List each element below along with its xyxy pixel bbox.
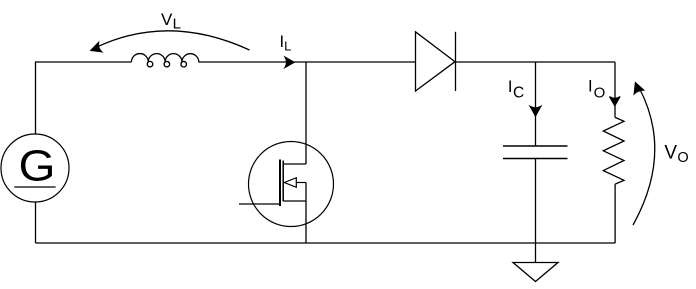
wire: ground lead xyxy=(535,243,537,263)
wire: bottom rail xyxy=(36,242,616,244)
arrow VL (curved, pointing left) xyxy=(98,31,250,50)
svg-text:C: C xyxy=(513,84,524,101)
arrow VO (curved, pointing up) xyxy=(633,89,655,226)
svg-text:I: I xyxy=(588,78,593,96)
MOSFET Q1 xyxy=(239,142,334,227)
wire top-left: source to inductor xyxy=(36,62,132,134)
wire: diode cathode to output node xyxy=(456,61,616,63)
capacitor C1 xyxy=(503,145,568,147)
wire: source bottom lead xyxy=(35,202,37,243)
resistor R1 xyxy=(603,117,624,184)
arrow IO (pointing down) xyxy=(610,97,621,106)
svg-text:O: O xyxy=(677,150,688,166)
source G1 xyxy=(1,134,69,202)
svg-text:I: I xyxy=(508,78,513,96)
ground xyxy=(513,263,558,282)
svg-text:O: O xyxy=(594,85,606,102)
wire: inductor to MOSFET drain node xyxy=(198,61,306,63)
arrow IL (on wire, pointing right) xyxy=(285,57,294,67)
svg-text:L: L xyxy=(173,16,181,33)
wire: node to diode anode xyxy=(306,61,416,63)
arrow IC (pointing down) xyxy=(530,106,541,116)
inductor L1 xyxy=(131,54,198,67)
wire: output node to resistor xyxy=(614,62,616,117)
wire: capacitor bottom lead xyxy=(535,159,537,244)
diode D1 xyxy=(416,32,456,91)
svg-text:V: V xyxy=(664,143,677,164)
svg-text:V: V xyxy=(161,10,173,29)
wire: MOSFET drain lead xyxy=(305,62,307,164)
svg-text:G: G xyxy=(19,143,56,191)
wire: resistor bottom lead xyxy=(614,184,616,243)
wire: capacitor top lead xyxy=(535,62,537,146)
wire: MOSFET source lead xyxy=(305,183,307,244)
svg-text:L: L xyxy=(284,38,291,53)
